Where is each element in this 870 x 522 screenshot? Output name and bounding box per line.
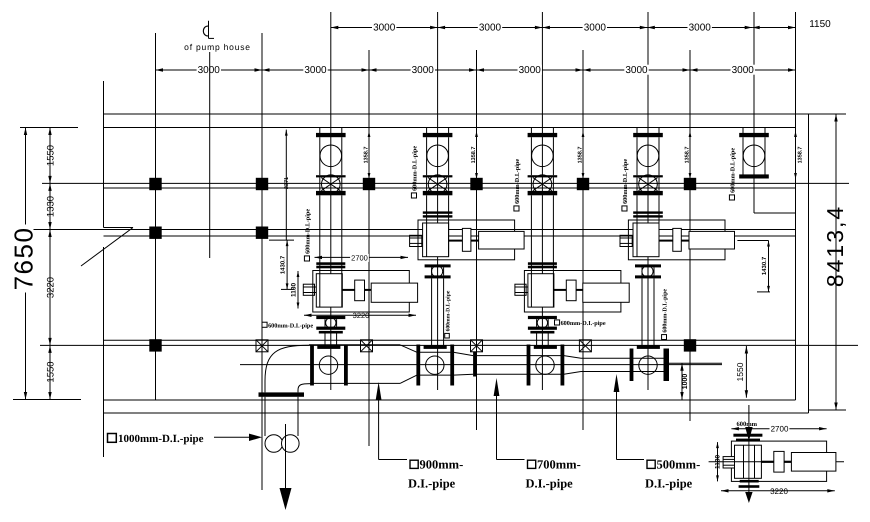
label 600mm suction pump 3	[514, 206, 519, 211]
svg-text:3000: 3000	[373, 23, 396, 34]
svg-text:of pump house: of pump house	[184, 42, 251, 52]
svg-text:1550: 1550	[46, 145, 57, 166]
header pipe 900mm segment	[417, 351, 453, 353]
partition wall near pump 5	[754, 212, 796, 214]
label 500mm D.I. pipe with leader	[614, 374, 620, 392]
svg-text:3000: 3000	[625, 65, 648, 76]
pump house inner wall bottom	[104, 399, 796, 401]
detail: shaft	[761, 461, 773, 463]
svg-text:3000: 3000	[732, 65, 755, 76]
label 900mm D.I. pipe with leader	[376, 382, 382, 400]
detail: centerline	[709, 461, 844, 463]
tee2-3 flange	[473, 352, 477, 377]
pump house outer wall top	[104, 113, 811, 115]
right wall inner	[795, 12, 797, 400]
svg-text:D.I.-pipe: D.I.-pipe	[408, 477, 456, 491]
detail: bottom flanges	[740, 480, 759, 483]
svg-text:D.I.-pipe: D.I.-pipe	[645, 477, 693, 491]
svg-text:600mm: 600mm	[737, 421, 758, 428]
crossed column box row C	[471, 340, 483, 352]
label 600mm suction pump 4	[622, 206, 627, 211]
detail: dim 3220	[721, 490, 835, 492]
svg-text:3220: 3220	[46, 277, 57, 298]
column row A #5	[577, 178, 589, 190]
bellmouth circles	[265, 435, 283, 453]
header pipe 500mm segment	[581, 357, 664, 359]
svg-text:1150: 1150	[809, 19, 831, 30]
drop pipe below elbow flange	[264, 397, 266, 436]
left wall break symbol	[104, 227, 134, 229]
svg-text:500mm-: 500mm-	[657, 458, 701, 472]
column row A #1	[149, 178, 161, 190]
crossed column box row C	[579, 340, 591, 352]
label discharge pump 3	[555, 320, 560, 325]
header tee and valve pump 1	[310, 345, 314, 386]
header tee and valve pump 4	[630, 349, 634, 382]
svg-text:1550: 1550	[46, 361, 57, 382]
column row A #2	[256, 178, 268, 190]
grid column line 4	[476, 50, 478, 430]
svg-text:1330: 1330	[46, 196, 57, 217]
svg-text:3000: 3000	[198, 65, 221, 76]
detail: coupling	[774, 451, 784, 472]
suction elbow inner curve	[298, 384, 311, 393]
grid row C beam line	[104, 339, 796, 341]
pump 1 centerline	[330, 12, 332, 390]
left wall lower segment	[103, 247, 105, 457]
svg-text:600mm-D.I.-pipe: 600mm-D.I.-pipe	[622, 159, 629, 204]
svg-text:1000: 1000	[682, 374, 689, 390]
svg-text:600mm-D.I.-pipe: 600mm-D.I.-pipe	[730, 148, 737, 193]
detail: dim 2700	[731, 428, 826, 430]
svg-text:3000: 3000	[689, 23, 712, 34]
grid column line 1	[155, 33, 157, 400]
column row A #3	[363, 178, 375, 190]
label 600mm suction pump 1	[304, 256, 309, 261]
overall dim 8413.4	[835, 114, 837, 410]
column row B	[149, 227, 161, 239]
detail: outlet down arrow	[748, 481, 750, 494]
svg-text:1430.7: 1430.7	[761, 256, 768, 275]
header centerline	[240, 364, 722, 366]
svg-text:8413,4: 8413,4	[822, 205, 848, 287]
dim 2700 pump 1	[315, 256, 409, 258]
detail: inlet down arrow	[748, 405, 750, 429]
left wall upper segment	[103, 81, 105, 228]
label downpipe pump 4	[662, 335, 667, 340]
svg-text:1130: 1130	[715, 455, 722, 469]
column row A #4	[470, 178, 482, 190]
dimension row 1: pump spacing 3000s	[331, 27, 752, 29]
column row B	[256, 227, 268, 239]
svg-text:600mm-D.I.-pipe: 600mm-D.I.-pipe	[662, 289, 669, 333]
reducer 900-700	[453, 352, 473, 355]
pump 2 centerline	[437, 12, 439, 390]
pump 4 body and motor (plan)	[636, 195, 638, 223]
dim 1358.7 at x=690	[689, 131, 691, 179]
left dim chain line	[49, 128, 51, 400]
grid row A beam line	[104, 187, 796, 189]
dim 2371 at x=286.3	[285, 130, 287, 240]
svg-text:1358.7: 1358.7	[685, 147, 691, 164]
grid row B beam line	[104, 235, 796, 237]
dim 1358.7 at x=583	[582, 131, 584, 179]
svg-text:1358.7: 1358.7	[364, 147, 370, 164]
grid column line 5	[582, 50, 584, 430]
grid row C line	[40, 344, 858, 346]
header tee and valve pump 3	[527, 345, 531, 386]
pump 1 body and motor (plan)	[319, 195, 321, 273]
svg-text:600mm-D.I.-pipe: 600mm-D.I.-pipe	[561, 320, 606, 327]
detail: motor	[791, 453, 836, 472]
bottom wall extension right	[809, 409, 847, 411]
grid row A line	[42, 182, 849, 184]
grid column line 6	[689, 50, 691, 421]
svg-text:1550: 1550	[735, 362, 745, 381]
dimension 1150 top right	[752, 27, 795, 29]
svg-text:600mm-D.I.-pipe: 600mm-D.I.-pipe	[412, 146, 419, 191]
label downpipe pump 2	[445, 333, 450, 338]
suction elbow outer curve	[265, 345, 309, 392]
label discharge pump 1	[262, 322, 267, 327]
svg-text:3000: 3000	[304, 65, 327, 76]
pump 4 suction pipe valve assembly	[636, 128, 638, 133]
header pipe 1000mm segment	[309, 344, 400, 346]
svg-text:3000: 3000	[479, 23, 502, 34]
svg-text:1000mm-D.I.-pipe: 1000mm-D.I.-pipe	[118, 433, 204, 445]
pump 2 suction pipe valve assembly	[426, 128, 428, 133]
right wall outer	[808, 114, 810, 413]
header end flange	[664, 349, 669, 382]
svg-text:600mm-D.I.-pipe: 600mm-D.I.-pipe	[305, 209, 312, 254]
detail: top flanges	[733, 434, 762, 437]
pump 3 suction pipe valve assembly	[530, 128, 532, 133]
grid row B line	[25, 229, 795, 231]
centerline symbol of pump house	[203, 26, 208, 36]
svg-text:600mm-D.I.-pipe: 600mm-D.I.-pipe	[268, 322, 313, 329]
left dim extension line top	[20, 127, 78, 129]
svg-text:7650: 7650	[9, 227, 39, 291]
detail: suction stub	[723, 457, 734, 468]
svg-text:600mm-D.I.-pipe: 600mm-D.I.-pipe	[514, 159, 521, 204]
svg-text:3220: 3220	[353, 311, 370, 320]
dimension row 2: column spacing 3000s	[156, 69, 796, 71]
dim 1430.7 pump 1	[286, 240, 288, 289]
label 600mm suction pump 5	[729, 195, 734, 200]
pump house inner wall top	[104, 127, 796, 129]
pump 5 centerline	[753, 12, 755, 213]
svg-text:3000: 3000	[519, 65, 542, 76]
label 1000mm-D.I.-pipe	[108, 434, 117, 443]
svg-text:2700: 2700	[771, 425, 789, 434]
detail: pump body	[735, 445, 762, 478]
grid column line 3	[368, 50, 370, 446]
elbow flange	[259, 392, 305, 396]
svg-text:D.I.-pipe: D.I.-pipe	[526, 477, 574, 491]
leader arrow to drop pipe	[214, 436, 250, 438]
label 700mm D.I. pipe with leader	[494, 378, 500, 396]
svg-text:1358.7: 1358.7	[471, 147, 477, 164]
svg-text:3220: 3220	[770, 487, 788, 496]
svg-text:600mm-D.I.-pipe: 600mm-D.I.-pipe	[445, 290, 451, 331]
svg-text:1358.7: 1358.7	[578, 147, 584, 164]
pump 5 suction pipe valve assembly	[742, 128, 744, 133]
pump 2 body and motor (plan)	[426, 195, 428, 223]
svg-text:2700: 2700	[351, 253, 368, 262]
svg-text:1430.7: 1430.7	[280, 255, 287, 274]
dim 1000 (header to wall)	[669, 362, 722, 364]
pump 3 centerline	[541, 12, 543, 390]
column row C	[684, 339, 696, 351]
header tee and valve pump 2	[416, 345, 420, 386]
dim 3220 pump 1	[304, 314, 416, 316]
crossed column box row C	[256, 340, 268, 352]
dim 1358.7 at x=795.5	[795, 131, 797, 179]
pump 3 body and motor (plan)	[530, 195, 532, 273]
svg-text:1358.7: 1358.7	[798, 147, 804, 164]
dim 1130 pump 1	[297, 271, 299, 309]
svg-text:2371: 2371	[284, 177, 290, 189]
column row C	[149, 339, 161, 351]
top wall extension right	[810, 113, 846, 115]
svg-text:900mm-: 900mm-	[420, 458, 464, 472]
dim 1550 right (row C to wall)	[745, 346, 747, 398]
svg-text:3000: 3000	[584, 23, 607, 34]
reducer 1000-900	[400, 345, 417, 353]
label 600mm suction pump 2	[411, 193, 416, 198]
outfall down arrow	[285, 424, 287, 492]
svg-text:3000: 3000	[412, 65, 435, 76]
dim 1430.7 pump 4	[737, 240, 768, 242]
dim 1358.7 at x=476.5	[476, 131, 478, 179]
pump 1 suction pipe valve assembly	[319, 128, 321, 133]
crossed column box row C	[361, 340, 373, 352]
dim 1358.7 at x=369	[368, 131, 370, 179]
column row A #6	[684, 178, 696, 190]
grid column line 2	[261, 33, 263, 490]
svg-text:700mm-: 700mm-	[537, 458, 581, 472]
pump house centerline	[209, 52, 211, 258]
pump house outer wall bottom	[104, 412, 809, 414]
reducer 700-500	[564, 356, 581, 359]
left dim extension line bottom	[13, 399, 81, 401]
detail: bedplate outline	[731, 441, 826, 481]
pump 4 centerline	[647, 12, 649, 390]
header pipe 700mm segment	[477, 355, 564, 357]
detail: dim 1130	[717, 442, 719, 481]
overall dim 7650	[25, 128, 27, 400]
